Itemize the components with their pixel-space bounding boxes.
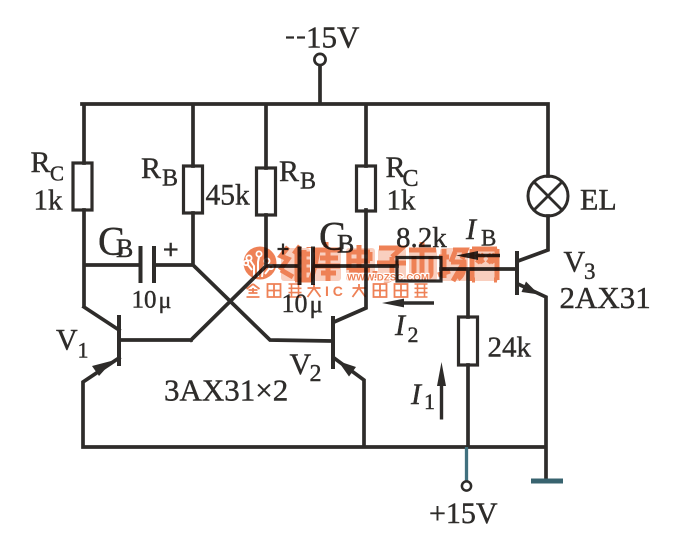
svg-text:3AX31×2: 3AX31×2 xyxy=(164,373,288,408)
svg-text:R: R xyxy=(279,155,299,188)
svg-text:V: V xyxy=(56,324,78,357)
svg-text:V: V xyxy=(564,246,586,279)
svg-text:WWW.DZSC.COM: WWW.DZSC.COM xyxy=(347,273,429,284)
svg-text:B: B xyxy=(162,166,178,192)
svg-text:I: I xyxy=(394,309,407,342)
svg-text:I: I xyxy=(465,213,478,246)
svg-text:μ: μ xyxy=(159,288,172,314)
svg-text:15V: 15V xyxy=(306,20,360,55)
svg-text:1k: 1k xyxy=(387,185,417,217)
svg-text:B: B xyxy=(300,169,316,195)
svg-text:+15V: +15V xyxy=(429,497,498,530)
svg-text:μ: μ xyxy=(310,292,323,319)
svg-text:10: 10 xyxy=(132,287,157,314)
svg-text:EL: EL xyxy=(580,184,617,217)
svg-text:B: B xyxy=(116,234,133,263)
svg-text:24k: 24k xyxy=(488,332,532,364)
svg-text:1: 1 xyxy=(424,389,435,414)
svg-text:45k: 45k xyxy=(206,180,251,212)
svg-text:V: V xyxy=(290,348,312,381)
svg-text:I C: I C xyxy=(325,283,343,299)
svg-text:R: R xyxy=(31,146,51,179)
svg-text:C: C xyxy=(50,162,64,186)
svg-text:R: R xyxy=(141,152,161,185)
svg-text:2: 2 xyxy=(310,361,322,387)
svg-text:2: 2 xyxy=(408,322,419,347)
svg-text:I: I xyxy=(410,378,423,411)
svg-text:1: 1 xyxy=(78,338,89,363)
svg-text:1k: 1k xyxy=(34,185,64,217)
svg-text:2AX31: 2AX31 xyxy=(560,280,651,315)
